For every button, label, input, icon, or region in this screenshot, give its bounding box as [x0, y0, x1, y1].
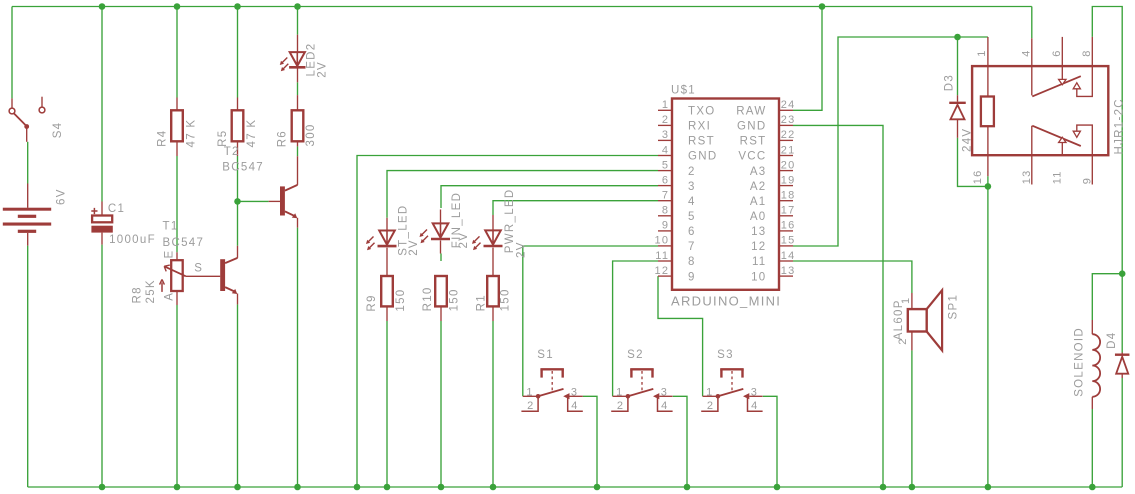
svg-text:A0: A0: [750, 211, 767, 223]
svg-text:D4: D4: [1106, 332, 1118, 349]
label R10: [422, 286, 434, 311]
svg-text:8: 8: [688, 256, 696, 268]
svg-text:25K: 25K: [145, 279, 157, 303]
value 1000uF: [109, 234, 156, 246]
svg-text:20: 20: [781, 159, 796, 171]
LED FIN_LED: [420, 210, 451, 254]
svg-text:9: 9: [688, 271, 696, 283]
pin 1 SP1: [900, 297, 912, 304]
svg-text:11: 11: [1051, 170, 1063, 184]
label ARDUINO_MINI: [671, 294, 781, 309]
svg-text:11: 11: [655, 250, 669, 262]
wire D4 bottom to rail: [1121, 378, 1123, 487]
label SP1: [947, 294, 959, 320]
label R9: [366, 294, 378, 311]
svg-text:9: 9: [662, 220, 669, 232]
svg-text:S1: S1: [537, 349, 554, 361]
svg-text:RAW: RAW: [736, 106, 766, 118]
value 2V (ST_LED): [408, 239, 420, 256]
switch S1: [521, 369, 582, 411]
wire R6 to T2 collector: [297, 146, 299, 156]
wire R8 bottom to rail: [176, 305, 178, 487]
potentiometer R8: [160, 252, 186, 305]
svg-text:22: 22: [781, 129, 796, 141]
svg-text:GND: GND: [688, 151, 717, 163]
pin label S: [194, 263, 203, 275]
label S4: [52, 122, 64, 139]
svg-text:SOLENOID: SOLENOID: [1074, 327, 1086, 397]
svg-text:3: 3: [688, 181, 696, 193]
value 2V (LED2): [317, 61, 329, 78]
wire battery bottom to rail: [27, 246, 29, 487]
label AL60P: [893, 299, 905, 340]
svg-text:S: S: [194, 263, 203, 275]
IC U$1 ARDUINO_MINI body and pins: [658, 99, 793, 290]
svg-text:R4: R4: [157, 130, 169, 147]
junction bottom rail x=883: [880, 484, 887, 491]
wire LED2 top: [297, 7, 299, 35]
svg-text:D3: D3: [944, 74, 956, 91]
svg-text:47 K: 47 K: [246, 119, 258, 148]
value 24V: [962, 128, 974, 152]
svg-text:1: 1: [526, 386, 533, 398]
battery 6V: [3, 184, 51, 246]
label PWR_LED: [504, 188, 516, 253]
svg-text:3: 3: [662, 129, 669, 141]
diode D3: [949, 95, 966, 138]
LED ST_LED: [366, 218, 397, 276]
value 2V (PWR_LED): [516, 241, 528, 258]
svg-text:150: 150: [395, 289, 407, 312]
junction top rail at R5: [234, 3, 241, 10]
pin label A: [164, 292, 176, 301]
wire S1 output to rail: [583, 396, 597, 487]
label S2: [627, 349, 644, 361]
resistor R6: [292, 95, 304, 146]
svg-text:13: 13: [751, 226, 766, 238]
svg-text:7: 7: [688, 241, 696, 253]
transistor T1: [186, 246, 238, 305]
pin numbers S2: [616, 386, 668, 412]
svg-text:A3: A3: [750, 166, 767, 178]
resistor R10: [435, 276, 447, 321]
label C1: [108, 203, 125, 215]
wire pin10 to S1: [523, 246, 658, 396]
label 6V: [55, 188, 67, 205]
svg-text:6: 6: [1051, 49, 1063, 56]
switch S2: [611, 369, 672, 411]
label T2: [224, 146, 240, 158]
label ST_LED: [398, 205, 410, 256]
wire pin14 to SP1: [793, 261, 912, 293]
wire GND pin23 to rail: [793, 125, 883, 487]
svg-text:18: 18: [781, 190, 796, 202]
wire pin6 to FIN_LED: [441, 186, 658, 208]
wire R5 top: [237, 7, 239, 98]
junction top rail at R4: [174, 3, 181, 10]
value 2V (FIN_LED): [458, 232, 470, 249]
svg-text:150: 150: [500, 288, 512, 311]
svg-text:U$1: U$1: [671, 85, 696, 97]
svg-text:T2: T2: [224, 146, 240, 158]
svg-text:1: 1: [662, 99, 669, 111]
inductor SOLENOID: [1092, 320, 1100, 409]
svg-text:5: 5: [662, 159, 669, 171]
svg-text:GND: GND: [737, 121, 766, 133]
label SOLENOID: [1074, 327, 1086, 397]
svg-text:R10: R10: [422, 286, 434, 311]
svg-text:1: 1: [706, 386, 713, 398]
svg-text:10: 10: [751, 271, 766, 283]
svg-text:14: 14: [781, 250, 796, 262]
wire R4 to R8: [176, 156, 178, 252]
wire D3 top lead: [957, 37, 959, 95]
svg-text:13: 13: [1021, 169, 1033, 184]
wire bottom GND rail: [28, 486, 1123, 488]
junction bottom rail x=102: [99, 484, 106, 491]
label LED2: [305, 43, 317, 77]
svg-text:R9: R9: [366, 294, 378, 311]
svg-text:1: 1: [616, 386, 623, 398]
wire relay pin16 to junction: [987, 176, 989, 186]
svg-text:6V: 6V: [55, 188, 67, 205]
relay contact 2 (pins 13,11,9): [1032, 125, 1093, 184]
junction bottom rail x=387: [384, 484, 391, 491]
svg-text:16: 16: [781, 220, 796, 232]
wire relay pin8 to right edge: [1092, 7, 1122, 274]
wire pin5 to ST_LED: [387, 171, 658, 218]
svg-text:1000uF: 1000uF: [109, 234, 156, 246]
svg-text:7: 7: [662, 190, 669, 202]
svg-text:150: 150: [448, 288, 460, 311]
junction bottom rail x=237.5: [234, 484, 241, 491]
svg-text:5: 5: [688, 211, 696, 223]
wire D3 bottom to junction: [958, 138, 988, 187]
value 25K: [145, 279, 157, 303]
junction bottom rail x=297.5: [294, 484, 301, 491]
wire S4 to battery: [27, 142, 29, 184]
svg-text:SP1: SP1: [947, 294, 959, 320]
svg-text:300: 300: [305, 123, 317, 146]
LED LED2: [280, 35, 306, 83]
svg-text:8: 8: [662, 205, 669, 217]
wire right edge to D4: [1121, 274, 1123, 353]
svg-text:2: 2: [688, 166, 696, 178]
junction bottom rail x=777: [774, 484, 781, 491]
svg-text:RST: RST: [688, 136, 715, 148]
junction relay pin16 / D3: [985, 183, 992, 190]
wire C1 top: [101, 7, 103, 202]
junction top rail at C1: [99, 3, 106, 10]
svg-text:R5: R5: [217, 130, 229, 147]
pin numbers S3: [706, 386, 758, 412]
switch S4: [9, 97, 45, 142]
svg-text:A2: A2: [750, 181, 767, 193]
resistor R5: [232, 98, 244, 157]
wire T1 emitter to rail: [237, 304, 239, 487]
svg-text:S2: S2: [627, 349, 644, 361]
label R6: [277, 130, 289, 147]
svg-text:47 K: 47 K: [186, 119, 198, 148]
relay contact 1 (pins 4,6,8): [1032, 37, 1093, 97]
wire pin12 to S3: [658, 276, 703, 396]
svg-text:9: 9: [1081, 177, 1093, 184]
wire GND pin4 to rail: [357, 156, 658, 488]
svg-text:S3: S3: [717, 349, 734, 361]
label S3: [717, 349, 734, 361]
svg-text:16: 16: [972, 169, 984, 184]
label R1: [475, 294, 487, 311]
resistor R4: [171, 98, 183, 157]
junction bottom rail x=357: [354, 484, 361, 491]
svg-text:E: E: [164, 250, 176, 259]
svg-text:2V: 2V: [317, 61, 329, 78]
svg-text:HJR1-2C: HJR1-2C: [1114, 98, 1126, 154]
wire top +6V rail: [12, 6, 1032, 8]
svg-text:T1: T1: [163, 220, 179, 232]
diode D4: [1115, 353, 1130, 379]
relay coil: [981, 37, 994, 176]
wire pin15 to relay coil: [793, 37, 988, 246]
junction bottom rail x=493: [490, 484, 497, 491]
svg-text:4: 4: [688, 196, 696, 208]
svg-text:12: 12: [751, 241, 766, 253]
junction bottom rail x=1092.3: [1089, 484, 1096, 491]
wire LED2 to R6: [297, 82, 299, 95]
svg-text:S4: S4: [52, 122, 64, 139]
wire RAW pin24 to top rail: [793, 7, 822, 111]
LED PWR_LED: [472, 215, 503, 276]
svg-text:2V: 2V: [408, 239, 420, 256]
svg-text:4: 4: [662, 144, 669, 156]
svg-text:24V: 24V: [962, 128, 974, 152]
wire node B to T2 base: [238, 200, 269, 202]
svg-text:13: 13: [781, 265, 796, 277]
label HJR1-2C: [1114, 98, 1126, 154]
wire T2 emitter to rail: [297, 228, 299, 487]
svg-text:2: 2: [617, 400, 624, 412]
svg-text:A1: A1: [750, 196, 767, 208]
svg-text:21: 21: [781, 144, 796, 156]
svg-text:24: 24: [781, 99, 796, 111]
junction bottom rail x=987.9: [985, 484, 992, 491]
wire R10 bottom to rail: [440, 321, 442, 487]
label D4: [1106, 332, 1118, 349]
relay pin numbers: [972, 49, 1093, 184]
value BC547 (T2): [222, 161, 264, 173]
wire R9 bottom to rail: [386, 321, 388, 487]
svg-text:8: 8: [1081, 49, 1093, 56]
svg-text:RST: RST: [740, 136, 767, 148]
svg-text:6: 6: [688, 226, 696, 238]
svg-text:2: 2: [707, 400, 714, 412]
label T1: [163, 220, 179, 232]
value 300: [305, 123, 317, 146]
junction bottom rail x=687: [684, 484, 691, 491]
svg-text:R1: R1: [475, 294, 487, 311]
svg-text:4: 4: [751, 400, 758, 412]
value 150 (R10): [448, 288, 460, 311]
junction bottom rail x=177: [174, 484, 181, 491]
resistor R9: [381, 276, 393, 321]
wire pin7 to PWR_LED: [493, 201, 658, 215]
junction D3 top: [954, 34, 961, 41]
junction solenoid tap: [1119, 270, 1126, 277]
junction top rail at LED2: [294, 3, 301, 10]
wire pin11 to S2: [613, 261, 658, 396]
pin label E: [164, 250, 176, 259]
svg-text:2: 2: [897, 337, 909, 344]
pin 2 SP1: [897, 337, 909, 344]
label R5: [217, 130, 229, 147]
svg-text:3: 3: [571, 386, 578, 398]
svg-text:17: 17: [781, 205, 796, 217]
value 47 K (R5): [246, 119, 258, 148]
pin names U$1: [688, 106, 767, 284]
svg-text:2: 2: [662, 114, 669, 126]
value 150 (R1): [500, 288, 512, 311]
pin numbers S1: [526, 386, 578, 412]
label R8: [131, 286, 143, 303]
relay body HJR1-2C: [972, 66, 1108, 155]
pin numbers U$1: [654, 99, 795, 277]
wire left edge drop to S4: [11, 7, 13, 99]
wire FIN_LED to R10: [440, 254, 442, 262]
wire junction to solenoid: [1092, 274, 1122, 320]
svg-text:4: 4: [1021, 49, 1033, 56]
svg-text:R6: R6: [277, 130, 289, 147]
junction bottom rail x=441: [438, 484, 445, 491]
svg-text:2V: 2V: [516, 241, 528, 258]
label D3: [944, 74, 956, 91]
wire S3 output to rail: [763, 396, 777, 487]
junction bottom rail x=597: [594, 484, 601, 491]
svg-text:2V: 2V: [458, 232, 470, 249]
svg-text:3: 3: [661, 386, 668, 398]
value 47 K (R4): [186, 119, 198, 148]
value BC547 (T1): [163, 237, 205, 249]
wire R4 top: [176, 7, 178, 98]
svg-text:2: 2: [527, 400, 534, 412]
svg-text:TXO: TXO: [688, 106, 716, 118]
wire relay pin16 junction to rail: [987, 186, 989, 487]
wire node B to T1 collector: [237, 201, 239, 245]
label U$1: [671, 85, 696, 97]
svg-text:BC547: BC547: [163, 237, 205, 249]
svg-text:4: 4: [661, 400, 668, 412]
label S1: [537, 349, 554, 361]
value 150 (R9): [395, 289, 407, 312]
wire R5 to node B: [237, 156, 239, 201]
svg-text:A: A: [164, 292, 176, 301]
label FIN_LED: [451, 192, 463, 248]
switch S3: [701, 369, 762, 411]
svg-text:3: 3: [751, 386, 758, 398]
svg-text:ARDUINO_MINI: ARDUINO_MINI: [671, 294, 781, 309]
svg-text:VCC: VCC: [738, 151, 766, 163]
transistor T2: [269, 156, 298, 227]
speaker SP1: [908, 290, 942, 350]
wire SP1 bottom to rail: [911, 350, 913, 487]
svg-text:BC547: BC547: [222, 161, 264, 173]
wire R1 bottom to rail: [492, 321, 494, 487]
junction top rail at RAW: [819, 3, 826, 10]
junction bottom rail x=911.9: [909, 484, 916, 491]
svg-text:10: 10: [654, 235, 669, 247]
wire top rail corner down to relay pin 4: [1031, 7, 1033, 39]
wire C1 bottom to rail: [101, 245, 103, 487]
svg-text:4: 4: [571, 400, 578, 412]
svg-text:15: 15: [781, 235, 796, 247]
svg-text:LED2: LED2: [305, 43, 317, 77]
capacitor C1: [91, 202, 113, 245]
svg-text:1: 1: [976, 49, 988, 56]
svg-text:C1: C1: [108, 203, 125, 215]
svg-text:19: 19: [781, 174, 796, 186]
svg-text:6: 6: [662, 174, 669, 186]
label R4: [157, 130, 169, 147]
svg-text:RXI: RXI: [688, 121, 711, 133]
wire S2 output to rail: [673, 396, 687, 487]
svg-text:11: 11: [752, 256, 767, 268]
wire solenoid bottom to rail: [1091, 409, 1093, 487]
junction node B: [234, 198, 241, 205]
resistor R1: [487, 276, 499, 321]
svg-text:AL60P: AL60P: [893, 299, 905, 340]
svg-text:23: 23: [781, 114, 796, 126]
svg-text:12: 12: [654, 265, 669, 277]
svg-text:PWR_LED: PWR_LED: [504, 188, 516, 253]
svg-text:R8: R8: [131, 286, 143, 303]
